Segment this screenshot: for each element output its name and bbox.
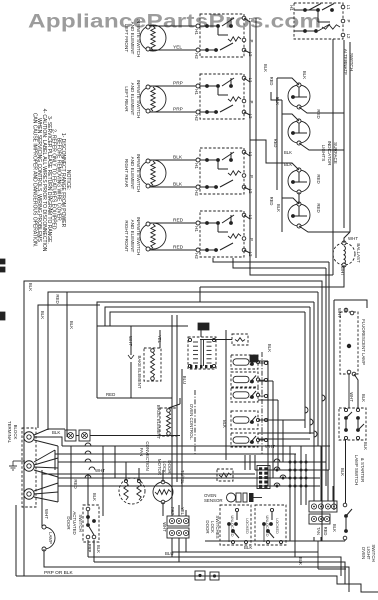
svg-text:SWITCH: SWITCH (78, 514, 83, 531)
svg-text:LEFT REAR: LEFT REAR (124, 86, 129, 112)
svg-text:WHT: WHT (337, 308, 342, 318)
svg-text:WHT: WHT (95, 468, 105, 473)
svg-text:L1: L1 (346, 5, 351, 10)
svg-text:RED: RED (273, 139, 278, 148)
svg-text:LIGHT: LIGHT (366, 547, 371, 560)
svg-text:BLK: BLK (361, 394, 366, 402)
svg-text:BLU: BLU (165, 551, 174, 556)
svg-text:RED: RED (269, 197, 274, 206)
svg-text:BLK: BLK (96, 545, 101, 553)
svg-text:RED: RED (316, 203, 321, 212)
svg-text:YEL: YEL (173, 45, 182, 51)
svg-text:T1/T2L: T1/T2L (180, 470, 185, 484)
svg-text:FAN: FAN (139, 448, 144, 457)
svg-text:BLK: BLK (332, 524, 337, 532)
svg-text:UNLOCKED: UNLOCKED (230, 515, 234, 536)
svg-text:BLK: BLK (267, 344, 272, 352)
svg-text:AND ELEMENT: AND ELEMENT (130, 22, 135, 55)
svg-text:LOCKED: LOCKED (245, 518, 249, 534)
svg-text:MOTOR: MOTOR (157, 459, 162, 475)
svg-text:BLK: BLK (173, 182, 183, 188)
svg-text:RED: RED (173, 245, 184, 251)
svg-text:WHT: WHT (348, 236, 358, 241)
svg-text:WHT: WHT (349, 392, 354, 402)
svg-text:UNLOCKED: UNLOCKED (265, 515, 269, 536)
svg-text:BLK: BLK (69, 321, 74, 329)
svg-text:BLK: BLK (222, 420, 227, 428)
svg-text:BLK: BLK (28, 283, 33, 291)
svg-text:H1: H1 (289, 5, 294, 11)
svg-text:BLK: BLK (363, 442, 368, 450)
svg-text:BROIL ELEMENT: BROIL ELEMENT (156, 405, 161, 440)
svg-text:AppliancePartsPros.com: AppliancePartsPros.com (28, 10, 321, 32)
svg-text:CAN CAUSE IMPROPER AND DANGERO: CAN CAUSE IMPROPER AND DANGEROUS OPERATI… (31, 113, 37, 247)
svg-text:BLK: BLK (40, 311, 45, 319)
svg-text:BLK: BLK (275, 97, 280, 105)
svg-text:OVEN CONTROL.: OVEN CONTROL. (189, 404, 194, 440)
svg-text:LOCKED: LOCKED (275, 518, 279, 534)
svg-text:BLK: BLK (302, 71, 307, 79)
svg-text:AND ELEMENT: AND ELEMENT (130, 157, 135, 190)
svg-text:AND ELEMENT: AND ELEMENT (130, 83, 135, 116)
svg-text:RED: RED (269, 77, 274, 86)
svg-text:RED: RED (55, 294, 60, 303)
svg-text:BLK: BLK (92, 493, 97, 501)
svg-text:CONVECTION: CONVECTION (145, 441, 150, 470)
svg-text:OVEN: OVEN (361, 547, 366, 559)
svg-text:LAMP SWITCH: LAMP SWITCH (354, 455, 359, 485)
svg-text:RIGHT FRONT: RIGHT FRONT (124, 220, 129, 251)
svg-text:BLK: BLK (263, 64, 268, 72)
svg-text:TAN: TAN (316, 527, 321, 535)
svg-text:SWITCH: SWITCH (371, 544, 376, 561)
svg-text:RIGHT REAR: RIGHT REAR (124, 159, 129, 188)
svg-text:WHT: WHT (265, 444, 275, 449)
svg-text:RED: RED (173, 218, 184, 224)
svg-text:RED: RED (73, 479, 78, 488)
svg-text:BLOCK: BLOCK (13, 425, 18, 440)
svg-text:DOOR: DOOR (66, 516, 71, 529)
svg-text:H2: H2 (194, 115, 199, 121)
svg-text:TERMINAL: TERMINAL (7, 421, 12, 444)
svg-text:AND ELEMENT: AND ELEMENT (130, 220, 135, 253)
svg-text:H1: H1 (194, 163, 199, 169)
svg-text:H1: H1 (194, 29, 199, 35)
svg-text:H1: H1 (194, 89, 199, 95)
svg-text:WHT: WHT (44, 509, 49, 519)
svg-text:PRP: PRP (173, 81, 183, 87)
svg-text:YEL: YEL (180, 507, 185, 516)
svg-text:INDICATOR: INDICATOR (327, 141, 332, 167)
svg-text:& STARTER: & STARTER (360, 458, 365, 482)
svg-text:DOOR: DOOR (205, 520, 210, 533)
svg-text:LEFT FRONT: LEFT FRONT (124, 24, 129, 52)
svg-text:SENSOR: SENSOR (204, 498, 223, 503)
svg-text:ACTUATED: ACTUATED (72, 511, 77, 534)
svg-text:BLU: BLU (182, 376, 187, 385)
svg-text:BAKE ELEMENT: BAKE ELEMENT (137, 356, 142, 389)
svg-text:BLK: BLK (52, 430, 60, 435)
svg-text:H2: H2 (194, 253, 199, 259)
svg-text:L2: L2 (346, 34, 351, 39)
svg-text:BLK: BLK (298, 557, 303, 565)
svg-text:PRP OR BLK: PRP OR BLK (44, 570, 74, 576)
svg-text:PRP: PRP (173, 107, 183, 113)
svg-text:RED: RED (316, 174, 321, 183)
svg-text:RED: RED (106, 392, 115, 397)
svg-text:LOCK: LOCK (210, 521, 215, 533)
svg-text:H1: H1 (194, 226, 199, 232)
svg-text:BLK: BLK (244, 545, 252, 550)
svg-text:H2: H2 (194, 190, 199, 196)
svg-text:BALLAST: BALLAST (356, 243, 361, 263)
svg-text:SWITCHES: SWITCHES (215, 515, 220, 538)
svg-text:BLK: BLK (284, 150, 292, 155)
svg-text:RED: RED (323, 527, 328, 536)
svg-text:BLK: BLK (340, 468, 345, 476)
svg-text:BLK: BLK (276, 204, 281, 212)
svg-text:LIGHTS: LIGHTS (321, 145, 326, 162)
svg-text:RED: RED (316, 109, 321, 118)
svg-text:SURFACE: SURFACE (333, 142, 338, 164)
svg-text:WHT: WHT (162, 522, 167, 532)
svg-text:LAMP: LAMP (48, 532, 53, 544)
svg-text:P: P (346, 20, 351, 23)
svg-text:FLUORESCENT LAMP: FLUORESCENT LAMP (361, 319, 366, 365)
svg-text:H2: H2 (194, 53, 199, 59)
svg-text:BLK: BLK (173, 155, 183, 161)
